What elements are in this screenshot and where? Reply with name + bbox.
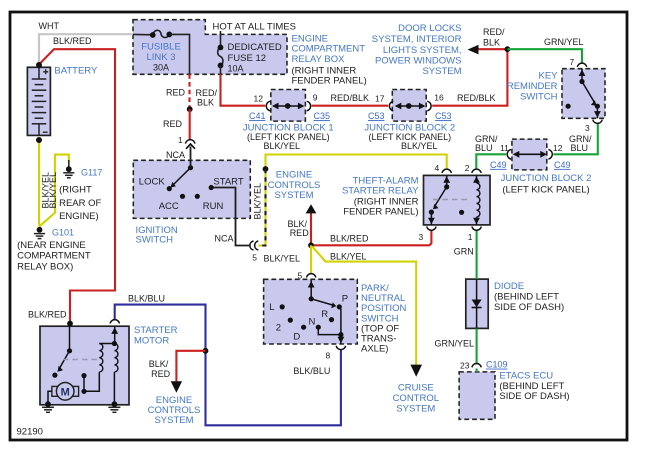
dedicated fuse 12 stub from top edge <box>220 31 222 47</box>
svg-text:HOT AT ALL TIMES: HOT AT ALL TIMES <box>213 22 296 33</box>
svg-text:BLK/BLU: BLK/BLU <box>128 293 165 303</box>
park/neutral pin 8 arc <box>336 346 345 350</box>
starter motor pin arc <box>110 320 119 324</box>
svg-text:C53: C53 <box>435 111 452 121</box>
svg-text:ENGINE): ENGINE) <box>59 211 99 222</box>
svg-text:BLK/YEL: BLK/YEL <box>264 254 301 264</box>
C49 left female cup <box>507 150 511 160</box>
svg-text:P: P <box>342 293 348 304</box>
relay mechanical link dashed <box>433 199 470 201</box>
svg-text:(NEAR ENGINE: (NEAR ENGINE <box>17 240 86 251</box>
connector 1 at ignition switch (female arc) <box>185 140 195 144</box>
node BLK/RED branch on blue wire <box>203 348 209 354</box>
node engine controls / relay junction <box>308 242 314 248</box>
key reminder pin 7 wire and arrow <box>581 69 583 82</box>
park/neutral lever to P <box>311 299 332 305</box>
relay pin 1 arc <box>472 227 481 231</box>
svg-text:30A: 30A <box>153 63 169 73</box>
svg-text:SYSTEM: SYSTEM <box>422 66 461 77</box>
svg-text:RED/: RED/ <box>196 88 218 98</box>
svg-text:BLK: BLK <box>197 98 214 108</box>
battery plus sign <box>43 69 48 74</box>
park/neutral contact P <box>337 304 342 309</box>
svg-text:SWITCH: SWITCH <box>520 92 558 103</box>
svg-text:G117: G117 <box>81 168 102 178</box>
svg-text:C53: C53 <box>368 111 385 121</box>
starter pull-in coil <box>99 343 114 345</box>
wire GRN/BLU C49 pin 11 to relay pin 2 <box>476 154 506 169</box>
svg-text:GRN/YEL: GRN/YEL <box>544 37 584 47</box>
relay wire contact to pin 3 <box>430 212 432 225</box>
svg-text:BLK: BLK <box>483 37 500 47</box>
svg-text:NCA: NCA <box>215 234 234 244</box>
key reminder contact right <box>595 104 600 109</box>
svg-text:12: 12 <box>553 143 563 153</box>
svg-text:M: M <box>61 386 70 398</box>
svg-text:WHT: WHT <box>39 21 60 31</box>
splice dot on red wire <box>187 106 193 112</box>
svg-text:POSITION: POSITION <box>361 303 407 314</box>
svg-text:RED: RED <box>151 369 171 379</box>
svg-text:GRN/YEL: GRN/YEL <box>435 339 475 349</box>
starter mechanical link dashed <box>63 359 99 361</box>
svg-text:92190: 92190 <box>17 427 43 438</box>
svg-text:C49: C49 <box>490 160 507 170</box>
svg-text:GRN: GRN <box>454 247 474 257</box>
svg-text:BLK/RED: BLK/RED <box>53 36 92 46</box>
svg-text:12: 12 <box>254 94 264 104</box>
svg-text:FUSIBLE: FUSIBLE <box>141 42 181 53</box>
starter motor box <box>40 326 129 405</box>
svg-text:COMPARTMENT: COMPARTMENT <box>17 251 91 262</box>
svg-text:RED: RED <box>290 228 310 238</box>
relay pin 3 arc <box>427 227 436 231</box>
park/neutral pin 5 wire and arrow <box>310 279 312 299</box>
svg-text:RED/BLK: RED/BLK <box>331 93 370 103</box>
wire BLK/RED branch to engine controls system arrow <box>176 351 205 382</box>
starter switch wire from top <box>69 326 71 351</box>
svg-text:D: D <box>293 331 300 342</box>
svg-text:2: 2 <box>276 323 281 334</box>
svg-text:SIDE OF DASH): SIDE OF DASH) <box>494 302 564 313</box>
ignition contact START <box>209 185 214 190</box>
key reminder pin 3 wire and arrow <box>596 106 598 118</box>
svg-text:16: 16 <box>434 93 444 103</box>
key reminder pin 3 arc <box>593 120 602 124</box>
relay switch wire from pin 4 <box>446 175 448 187</box>
battery negative terminal node <box>36 137 42 143</box>
relay switch lever <box>435 187 447 207</box>
connector 1 male arrow <box>186 144 195 149</box>
relay internal dot <box>459 210 464 215</box>
ignition contact LOCK <box>167 186 172 191</box>
svg-text:FENDER PANEL): FENDER PANEL) <box>343 207 418 218</box>
svg-text:SIDE OF DASH): SIDE OF DASH) <box>499 391 569 402</box>
key reminder contact left <box>566 104 571 109</box>
wire BLK/YEL battery negative to G101 <box>38 141 41 227</box>
wire RED/BLK C35 pin 9 to C53 pin 17 <box>312 105 389 107</box>
wire BLK/YEL G117 to G101 <box>40 155 69 226</box>
key reminder pin 7 arc <box>577 63 586 67</box>
wire RED/BLK dedicated fuse to C41 pin 12 <box>221 74 266 105</box>
svg-text:7: 7 <box>570 57 575 67</box>
relay switch contact <box>429 210 434 215</box>
wire inside fuse box: feed to fusible link <box>133 33 152 35</box>
svg-text:BLU: BLU <box>571 143 589 153</box>
svg-text:4: 4 <box>435 163 440 173</box>
svg-text:5: 5 <box>298 271 303 281</box>
svg-text:10A: 10A <box>228 64 244 74</box>
svg-text:START: START <box>213 176 243 187</box>
wire WHT battery to fusible link <box>39 34 133 64</box>
ETACS ECU box <box>459 372 495 419</box>
connector 5 inline arcs <box>250 241 258 250</box>
svg-text:RUN: RUN <box>203 201 224 212</box>
C49 pass-through arrow <box>514 153 546 155</box>
dedicated fuse 12 element <box>218 47 223 65</box>
C49 right female cup <box>548 150 552 160</box>
fusible link 3 element <box>153 30 170 37</box>
starter switch contact to motor <box>81 373 86 378</box>
theft-alarm starter relay box <box>424 175 491 225</box>
ignition switch box <box>133 160 250 218</box>
svg-text:RED/: RED/ <box>483 27 505 37</box>
svg-text:C49: C49 <box>554 160 571 170</box>
wire GRN/YEL to key reminder switch pin 7 <box>507 49 582 63</box>
wire BLK/RED node to relay pin 3 <box>311 231 431 245</box>
connector 23 arc <box>472 363 481 367</box>
svg-text:C41: C41 <box>249 111 266 121</box>
wire GRN/YEL diode to C109 connector 23 <box>476 328 478 363</box>
svg-text:BLK/BLU: BLK/BLU <box>293 366 330 376</box>
key reminder pivot <box>579 79 584 84</box>
starter ground right <box>112 401 118 407</box>
svg-text:MOTOR: MOTOR <box>134 336 169 347</box>
svg-text:17: 17 <box>375 93 385 103</box>
svg-text:BLK/YEL: BLK/YEL <box>264 141 301 151</box>
svg-text:1: 1 <box>468 232 473 242</box>
svg-text:DOOR LOCKS: DOOR LOCKS <box>398 23 461 34</box>
svg-text:BLU: BLU <box>475 143 493 153</box>
park/neutral pivot <box>309 296 314 301</box>
battery minus sign <box>43 131 48 133</box>
svg-text:REMINDER: REMINDER <box>507 81 558 92</box>
ignition switch lever to LOCK <box>174 168 191 185</box>
svg-text:G101: G101 <box>52 227 74 237</box>
junction block 1 C41/C35 box <box>271 90 306 122</box>
node BLK/RED at starter top <box>67 321 73 327</box>
C41 female cup <box>266 101 270 111</box>
starter ground left <box>45 401 51 407</box>
wire fusible link to box bottom <box>169 34 189 74</box>
svg-text:DIODE: DIODE <box>494 281 524 292</box>
wire from ignition START to connector 5 <box>211 188 250 246</box>
svg-text:L: L <box>269 302 274 313</box>
park/neutral wire P and N to pin 8 <box>339 307 341 335</box>
svg-text:RED/BLK: RED/BLK <box>457 93 496 103</box>
svg-text:LIGHTS SYSTEM,: LIGHTS SYSTEM, <box>383 45 462 56</box>
junction block 2 C53 box <box>392 90 426 122</box>
svg-text:ENGINE: ENGINE <box>276 169 312 180</box>
junction block 2 pass-through arrow <box>396 105 424 107</box>
svg-text:BLK/YEL: BLK/YEL <box>48 172 58 209</box>
relay coil <box>476 175 478 183</box>
wire BLK/YEL dashed down to ignition connector 5 <box>259 169 266 246</box>
svg-text:STARTER RELAY: STARTER RELAY <box>342 186 419 197</box>
park/neutral position switch box <box>264 279 358 344</box>
svg-text:C109: C109 <box>486 360 508 370</box>
motor brushes <box>52 386 58 396</box>
battery internal plates <box>32 67 47 135</box>
svg-text:BLK/: BLK/ <box>149 359 169 369</box>
ignition contact ACC <box>180 194 185 199</box>
park/neutral pin 5 arc <box>307 274 316 278</box>
svg-text:STARTER: STARTER <box>134 325 178 336</box>
node BLK/YEL ignition feed junction <box>263 166 269 172</box>
svg-text:SYSTEM: SYSTEM <box>396 404 435 415</box>
diode symbol <box>476 279 478 328</box>
svg-text:CONTROL: CONTROL <box>393 393 439 404</box>
relay pin 2 arc <box>472 169 481 173</box>
motor M circle <box>56 383 74 401</box>
svg-text:3: 3 <box>419 232 424 242</box>
relay switch pivot <box>444 184 449 189</box>
ignition switch pivot <box>188 165 193 170</box>
starter junction node <box>112 341 117 346</box>
park/neutral contact 2 <box>288 318 293 323</box>
svg-text:BLK/RED: BLK/RED <box>28 310 67 320</box>
svg-text:FUSE 12: FUSE 12 <box>228 53 267 64</box>
wire RED to ignition switch connector 1 <box>189 109 191 139</box>
junction block 2 C49 box <box>512 139 547 170</box>
wire motor left brush to ground <box>48 391 52 403</box>
park/neutral contact R <box>329 317 334 322</box>
wire RED/BLK to door locks arrow <box>477 48 507 50</box>
svg-text:23: 23 <box>460 360 470 370</box>
svg-text:RED: RED <box>163 119 183 129</box>
svg-text:BLK/RED: BLK/RED <box>330 233 369 243</box>
svg-text:AXLE): AXLE) <box>361 343 388 354</box>
svg-text:SWITCH: SWITCH <box>136 234 174 245</box>
battery box <box>27 67 50 135</box>
svg-text:JUNCTION BLOCK 2: JUNCTION BLOCK 2 <box>501 173 592 184</box>
svg-text:KEY: KEY <box>538 70 558 81</box>
svg-text:REAR OF: REAR OF <box>59 198 101 209</box>
park/neutral contact N <box>316 325 321 330</box>
ignition contact RUN <box>195 194 200 199</box>
svg-text:C35: C35 <box>314 111 331 121</box>
wire RED dashed below fusible link <box>188 74 190 107</box>
wire BLK/RED node to engine controls arrow <box>310 213 312 246</box>
C35 female cup <box>307 101 311 111</box>
relay pin 4 arc <box>442 169 451 173</box>
fusible link / dedicated fuse box <box>133 20 287 75</box>
arrow to engine controls system (top) <box>306 204 317 213</box>
svg-text:2: 2 <box>465 163 470 173</box>
svg-text:BLK/YEL: BLK/YEL <box>330 252 367 262</box>
svg-text:5: 5 <box>252 253 257 263</box>
ground G117 <box>63 160 74 178</box>
svg-text:LOCK: LOCK <box>139 176 166 187</box>
svg-text:BATTERY: BATTERY <box>54 65 98 76</box>
wire from dedicated fuse to box bottom <box>220 65 222 74</box>
wire RED/BLK C53 pin 16 to door locks node <box>432 49 507 105</box>
svg-text:RED: RED <box>166 88 186 98</box>
svg-text:9: 9 <box>313 93 318 103</box>
arrow to engine controls system (bottom) <box>171 381 182 393</box>
key reminder switch box <box>562 69 605 119</box>
svg-text:11: 11 <box>500 143 509 153</box>
svg-text:(LEFT KICK PANEL): (LEFT KICK PANEL) <box>502 185 589 196</box>
starter switch contact open <box>52 373 57 378</box>
svg-text:POWER WINDOWS: POWER WINDOWS <box>375 56 462 67</box>
svg-text:3: 3 <box>585 123 590 133</box>
svg-text:N: N <box>309 316 316 327</box>
svg-text:LINK 3: LINK 3 <box>146 52 175 63</box>
svg-text:R: R <box>321 309 328 320</box>
starter solenoid main line and arrow <box>114 326 116 343</box>
svg-text:ACC: ACC <box>159 201 179 212</box>
starter hold-in coil <box>114 344 118 372</box>
svg-text:BLK/YEL: BLK/YEL <box>252 183 262 220</box>
svg-text:1: 1 <box>178 135 183 145</box>
C53 right female cup <box>427 101 431 111</box>
svg-text:RELAY BOX: RELAY BOX <box>292 54 346 65</box>
battery positive terminal node <box>36 62 42 68</box>
wire BLK/RED battery to starter motor <box>40 49 115 324</box>
svg-text:SYSTEM: SYSTEM <box>274 190 313 201</box>
svg-text:(BEHIND LEFT: (BEHIND LEFT <box>494 292 559 303</box>
junction block 2 splice dot <box>406 103 412 109</box>
wire GRN relay pin 1 to diode <box>476 231 478 279</box>
key reminder lever <box>582 82 595 104</box>
svg-text:8: 8 <box>326 350 331 360</box>
svg-text:(RIGHT: (RIGHT <box>59 185 92 196</box>
diode box <box>466 279 488 328</box>
svg-text:FENDER PANEL): FENDER PANEL) <box>292 76 367 87</box>
wire BLK/YEL horizontal to relay pin 4 <box>266 155 447 170</box>
svg-text:SYSTEM, INTERIOR: SYSTEM, INTERIOR <box>372 34 462 45</box>
svg-text:RELAY BOX): RELAY BOX) <box>17 262 73 273</box>
svg-text:NCA: NCA <box>166 150 185 160</box>
wire BLK/BLU starter motor to park/neutral pin 8 <box>115 305 341 426</box>
C53 left female cup <box>389 101 393 111</box>
junction block 1 splice dot <box>285 103 291 109</box>
junction block 1 pass-through arrow <box>274 105 303 107</box>
wire GRN/BLU key reminder pin 3 down to C49 <box>553 124 597 154</box>
ground G101 <box>34 227 45 239</box>
wire GRN/YEL connector 23 into ETACS ECU <box>476 369 478 372</box>
starter switch lever <box>60 351 70 369</box>
node door locks / key reminder junction <box>505 46 511 52</box>
arrow to cruise control system <box>410 365 422 377</box>
wire NCA connector 1 to ignition switch <box>190 147 192 168</box>
arrow to door locks system <box>468 45 479 55</box>
wire BLK/YEL node to cruise control arrow <box>312 246 416 365</box>
park/neutral contact D <box>301 325 306 330</box>
svg-text:BLK/YEL: BLK/YEL <box>401 141 438 151</box>
wire BLK/YEL node to park/neutral pin 5 <box>310 245 312 274</box>
svg-text:SYSTEM: SYSTEM <box>154 415 193 426</box>
park/neutral contact L <box>280 304 285 309</box>
svg-text:DEDICATED: DEDICATED <box>228 42 282 53</box>
